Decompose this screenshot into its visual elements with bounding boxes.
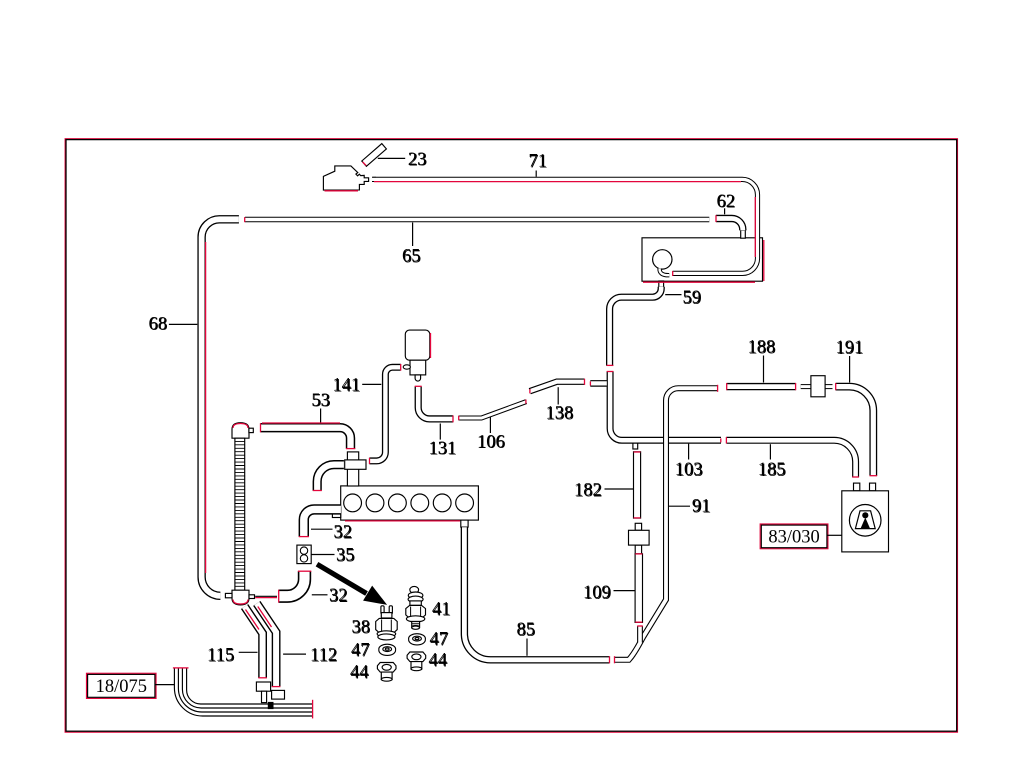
- svg-text:182: 182: [574, 481, 602, 501]
- svg-text:44: 44: [350, 663, 369, 683]
- svg-text:109: 109: [583, 583, 611, 603]
- svg-text:38: 38: [352, 618, 371, 638]
- svg-text:59: 59: [683, 288, 702, 308]
- svg-text:44: 44: [429, 651, 448, 671]
- svg-text:141: 141: [332, 376, 360, 396]
- svg-text:41: 41: [432, 600, 451, 620]
- svg-text:47: 47: [351, 641, 370, 661]
- svg-text:53: 53: [311, 391, 330, 411]
- svg-text:85: 85: [517, 620, 536, 640]
- svg-text:106: 106: [477, 432, 505, 452]
- svg-text:71: 71: [529, 152, 548, 172]
- svg-text:23: 23: [408, 150, 427, 170]
- svg-text:65: 65: [402, 247, 421, 267]
- svg-text:185: 185: [758, 460, 786, 480]
- svg-text:35: 35: [336, 546, 355, 566]
- svg-text:47: 47: [430, 630, 449, 650]
- svg-text:18/075: 18/075: [96, 677, 147, 697]
- svg-text:68: 68: [149, 314, 168, 334]
- svg-text:188: 188: [748, 338, 776, 358]
- svg-text:91: 91: [692, 497, 711, 517]
- svg-text:191: 191: [836, 338, 864, 358]
- svg-text:62: 62: [717, 192, 736, 212]
- svg-text:138: 138: [546, 404, 574, 424]
- svg-text:115: 115: [207, 646, 234, 666]
- svg-text:103: 103: [675, 460, 703, 480]
- svg-text:131: 131: [429, 439, 457, 459]
- svg-text:32: 32: [329, 586, 348, 606]
- svg-text:32: 32: [334, 523, 353, 543]
- svg-text:83/030: 83/030: [768, 528, 819, 548]
- svg-text:112: 112: [310, 646, 337, 666]
